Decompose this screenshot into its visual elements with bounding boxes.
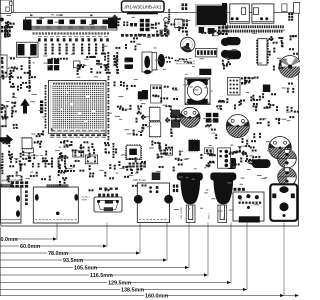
resistor cluster R30-R35	[11, 102, 18, 129]
capacitor column C19-C25	[29, 57, 31, 59]
resistor cluster R380-R383	[205, 124, 217, 139]
IC U13	[149, 107, 160, 120]
capacitor column C120	[113, 143, 115, 145]
connector J17 right edge	[294, 3, 300, 14]
capacitor cluster C72-C77	[241, 77, 259, 85]
connector J6 USB1	[177, 173, 203, 181]
pad grid P2	[288, 13, 290, 15]
connector J3 pin comb	[47, 184, 68, 187]
connector J2 pin comb	[1, 184, 13, 187]
capacitor column C130	[107, 52, 109, 54]
LED D1	[0, 18, 4, 22]
svg-text:VOL +: VOL +	[209, 212, 211, 219]
pin1 marks above CN1	[30, 15, 33, 17]
board outline right edge	[298, 12, 300, 226]
resistor cluster R83-R90	[286, 83, 298, 119]
svg-text:PWR: PWR	[82, 199, 88, 201]
capacitor CE12 oval box	[142, 52, 152, 72]
resistor cluster R350-R355	[115, 34, 142, 51]
resistor cluster R96-R109	[151, 141, 182, 172]
capacitor CE5	[278, 168, 297, 187]
capacitor group C101	[58, 170, 60, 172]
connector J2 DVI	[1, 187, 22, 223]
coin cell BT1	[279, 56, 301, 78]
IC U1 BGA inner ring	[51, 83, 104, 132]
svg-text:78.0mm: 78.0mm	[48, 251, 68, 257]
resistor cluster R36-R41	[1, 104, 9, 127]
pad strip P7	[25, 191, 28, 194]
resistor column R60-R62	[168, 9, 170, 11]
resistor cluster R50-R52	[86, 56, 95, 58]
capacitor CE2	[226, 115, 249, 138]
connector SATA1	[230, 4, 250, 23]
IC U17	[189, 140, 200, 151]
resistor group R301	[32, 163, 34, 165]
IC U8 QFN	[175, 19, 183, 27]
resistor cluster R122-R145	[0, 151, 68, 186]
header JP3 row A	[223, 25, 225, 28]
IC U9	[199, 69, 211, 75]
black block FB1	[222, 3, 227, 23]
oscillator X2	[85, 155, 97, 164]
orientation arrow up	[20, 99, 30, 114]
capacitor column C30-C37	[45, 85, 47, 87]
capacitor CT4	[252, 159, 271, 168]
IC U1 BGA outline	[49, 81, 107, 134]
oscillator X1	[73, 151, 84, 157]
resistor row R1-R11	[38, 38, 41, 41]
header JP3 row B	[224, 30, 226, 33]
resistor pair R90	[123, 22, 125, 24]
resistor group R300	[10, 159, 12, 161]
pad row above micro-USB	[99, 188, 102, 190]
connector CN5	[195, 49, 217, 57]
module U2 top-right	[197, 6, 227, 26]
resistor cluster R20-R29	[1, 57, 18, 97]
crystal Y2	[160, 30, 169, 35]
connector J4 micro-USB	[94, 197, 122, 212]
pad row under BGA	[51, 134, 55, 136]
capacitor CE10	[221, 38, 230, 46]
svg-text:116.5mm: 116.5mm	[90, 273, 113, 279]
resistor cluster R241-R244	[122, 161, 146, 174]
inductor L1	[185, 78, 210, 105]
svg-text:105.5mm: 105.5mm	[74, 265, 97, 271]
connector J16 power jack	[270, 184, 297, 221]
resistor cluster R91-R95	[226, 98, 245, 109]
pad cluster P5	[183, 19, 185, 22]
resistor cluster R310-R318	[17, 65, 36, 90]
silkscreen row under CN1	[33, 32, 35, 34]
resistor cluster R232-R236	[1, 140, 10, 147]
capacitor C96	[130, 23, 133, 26]
IC U1 BGA inner top pad band	[53, 83, 55, 85]
pad row P10	[234, 188, 237, 191]
capacitor group C100	[45, 158, 47, 160]
IC U15 socket	[228, 78, 241, 96]
IC U10 DIP	[258, 39, 267, 65]
capacitor CT3	[125, 58, 134, 70]
LED array D2	[1, 26, 3, 29]
pad row P3	[121, 34, 124, 37]
IC U19 QFN	[126, 145, 141, 160]
resistor cluster R189-R194	[289, 35, 298, 55]
capacitor C70	[171, 110, 180, 118]
IC U16	[263, 85, 271, 93]
resistor pack RN1	[4, 34, 6, 37]
connector J3 HDMI	[33, 187, 78, 223]
capacitor CE14	[147, 71, 149, 73]
resistor cluster R385-R388	[241, 133, 256, 144]
capacitor cluster C51-C56	[113, 55, 119, 74]
resistor cluster R42-R49	[96, 53, 111, 74]
connector J11	[218, 148, 231, 168]
capacitor column C110	[2, 153, 4, 155]
IC U1 BGA bottom text	[51, 130, 55, 131]
capacitor CE1	[180, 107, 200, 127]
svg-text:60.0mm: 60.0mm	[20, 244, 40, 250]
svg-text:USL + PWR: USL + PWR	[181, 207, 183, 219]
inductor FB2	[142, 90, 148, 99]
svg-text:160.0mm: 160.0mm	[145, 293, 168, 299]
svg-text:30.0mm: 30.0mm	[0, 237, 18, 243]
resistor cluster R73-R82	[250, 93, 278, 111]
svg-text:USB_R max: USB_R max	[133, 179, 147, 182]
capacitor CE9	[158, 54, 165, 67]
resistor cluster R201-R206	[113, 15, 121, 26]
transformer T1	[17, 42, 39, 57]
resistor cluster R179-R188	[268, 36, 283, 70]
svg-text:JR1-W3CUHB-AX1: JR1-W3CUHB-AX1	[124, 4, 162, 9]
resistor cluster R110-R121	[234, 145, 261, 165]
label JR1-W3CUHB-AX1	[122, 1, 165, 12]
capacitor CE13	[144, 70, 151, 74]
connector J18	[151, 85, 162, 103]
resistor cluster R166-R173	[151, 22, 176, 35]
resistor cluster R222-R231	[60, 140, 93, 151]
resistor cluster R207-R215	[165, 57, 192, 64]
capacitor C71	[171, 120, 180, 128]
capacitor CE4	[278, 149, 297, 168]
orientation arrow right	[0, 134, 13, 145]
board outline bottom edge	[1, 225, 299, 227]
test point TP1	[164, 18, 169, 23]
svg-text:138.5mm: 138.5mm	[121, 287, 144, 293]
board outline left edge	[0, 12, 2, 226]
resistor cluster R195-R200	[222, 58, 231, 69]
capacitor C201	[199, 27, 205, 33]
capacitor CT1	[225, 37, 241, 45]
IC U1 BGA center marks	[70, 103, 73, 105]
resistor network RN2	[40, 101, 43, 104]
connector J9	[150, 53, 157, 70]
capacitor grid C1-C10	[45, 44, 47, 46]
capacitor row C57-C60	[51, 58, 53, 60]
oscillator X3	[165, 148, 172, 155]
connector J1 top-left	[1, 0, 12, 13]
connector J13	[0, 55, 7, 77]
capacitor CT5	[227, 158, 236, 169]
connector CN1 pin comb	[32, 26, 107, 29]
connector J6 slot	[186, 205, 195, 223]
resistor cluster R53-R64	[117, 105, 147, 136]
vertical line topleft	[13, 0, 15, 12]
connector J5 USB_R	[137, 183, 169, 223]
connector J7 USB2	[210, 173, 236, 181]
resistor column R174-R178	[153, 24, 155, 26]
svg-text:93.5mm: 93.5mm	[63, 258, 83, 264]
svg-text:129.5mm: 129.5mm	[108, 280, 131, 286]
IC U12	[138, 91, 147, 99]
capacitor CE11	[221, 50, 230, 58]
connector J14	[0, 108, 6, 126]
board outline top edge	[1, 11, 299, 13]
pad grid P1	[218, 27, 221, 29]
IC U1 BGA ball grid	[53, 85, 104, 130]
IC U1 BGA pin1 mark	[51, 128, 55, 132]
resistor cluster R216-R221	[34, 131, 44, 148]
resistor cluster R330-R336	[152, 86, 178, 103]
connector J8 RJ45	[233, 192, 264, 221]
resistor cluster R320-R326	[77, 64, 93, 75]
resistor cluster R360-R364	[201, 30, 221, 36]
IC U20	[22, 138, 32, 149]
pad cluster P9	[173, 185, 175, 188]
capacitor column C40-C50	[108, 76, 110, 78]
capacitor cluster C78-C87	[200, 153, 215, 168]
resistor cluster R146-R165	[70, 148, 146, 191]
silkscreen text rows	[22, 36, 195, 156]
resistor cluster R370-R377	[8, 151, 61, 177]
resistor cluster R340-R345	[257, 118, 281, 138]
resistor cluster R245-R250	[229, 151, 247, 156]
transistor Q5	[152, 173, 160, 180]
board edge shield strip	[127, 12, 158, 14]
IC U14	[149, 122, 161, 137]
capacitor CT2	[225, 50, 241, 59]
pad grid P6	[206, 113, 212, 117]
dimension lines 30mm-160mm	[0, 223, 299, 300]
capacitor cluster C61-C65	[114, 81, 136, 90]
connector J10	[205, 148, 214, 154]
resistor cluster R237-R240	[104, 142, 110, 153]
buzzer BZ1	[181, 37, 195, 51]
connector CN1 SO-DIMM slot	[26, 17, 118, 30]
resistor cluster R12-R19	[4, 21, 14, 38]
capacitor CE3	[269, 137, 292, 160]
capacitor cluster C66-C69	[216, 100, 225, 110]
capacitor column C131	[116, 52, 118, 54]
connector J12	[23, 148, 34, 153]
pad block P8	[11, 181, 14, 184]
capacitor bank C90-C95	[140, 19, 144, 23]
connector SATA2	[252, 4, 274, 23]
capacitor grid C11-C18	[81, 44, 83, 46]
svg-text:(T+NC_/: (T+NC_/	[82, 197, 91, 199]
resistor cluster R65-R72	[165, 105, 180, 137]
silkscreen text specks	[6, 14, 291, 218]
capacitor C202	[208, 28, 215, 34]
jumper PJ1	[74, 61, 81, 68]
pad grid under U19	[129, 163, 132, 165]
capacitor cluster C88-C89	[178, 26, 188, 35]
connector J7 slot	[218, 205, 227, 223]
diode bridge D5	[48, 59, 53, 64]
resistor R201	[282, 4, 287, 12]
pad cluster P4	[182, 3, 184, 6]
